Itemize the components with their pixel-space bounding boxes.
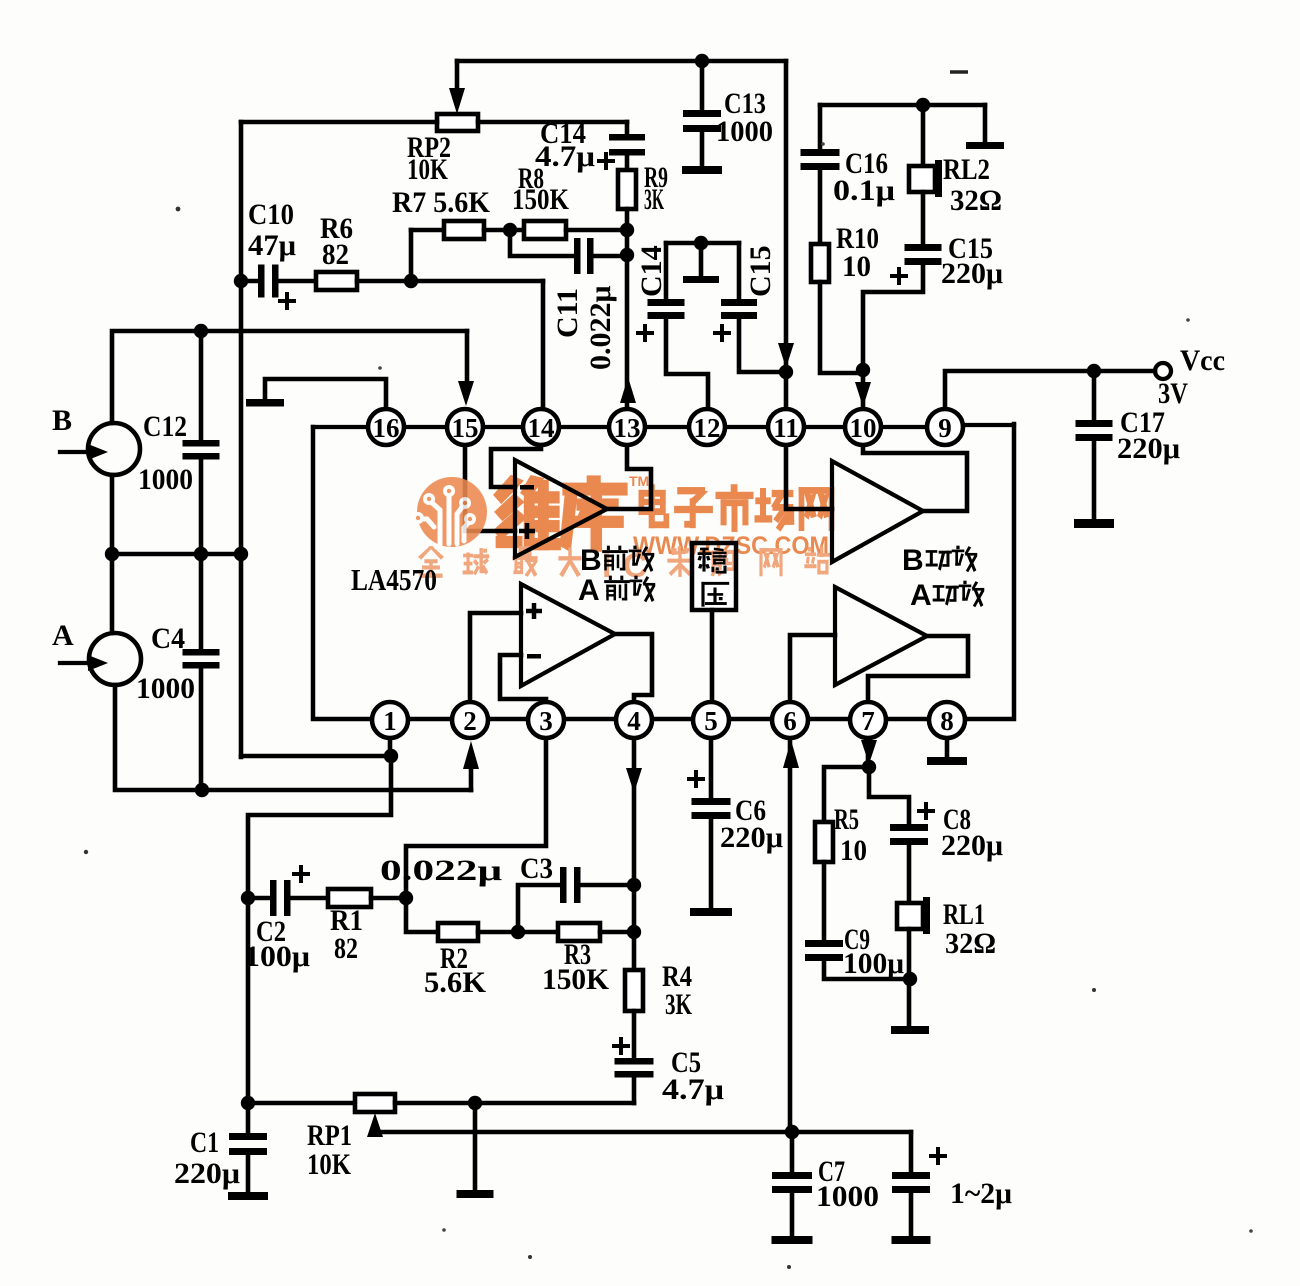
svg-text:WWW.DZSC.COM: WWW.DZSC.COM [633, 532, 829, 560]
svg-text:TM: TM [629, 473, 649, 489]
svg-text:Vcc: Vcc [1180, 344, 1225, 377]
svg-text:B: B [52, 404, 72, 437]
svg-text:RL2: RL2 [943, 153, 990, 186]
svg-text:10: 10 [842, 250, 871, 283]
svg-text:100μ: 100μ [843, 947, 904, 980]
svg-text:150K: 150K [542, 963, 610, 996]
svg-text:C11: C11 [551, 288, 584, 338]
svg-text:0.1μ: 0.1μ [833, 174, 895, 207]
svg-text:C15: C15 [744, 245, 777, 297]
svg-text:C12: C12 [143, 410, 187, 443]
svg-text:C: C [623, 547, 648, 585]
svg-text:4.7μ: 4.7μ [662, 1073, 724, 1106]
svg-text:16: 16 [373, 413, 400, 443]
svg-text:3: 3 [539, 706, 553, 736]
svg-text:3K: 3K [644, 183, 664, 216]
svg-text:0.022μ: 0.022μ [380, 854, 502, 887]
svg-text:1000: 1000 [136, 672, 195, 705]
svg-text:14: 14 [528, 413, 555, 443]
svg-text:1000: 1000 [716, 115, 773, 148]
svg-text:5.6K: 5.6K [424, 966, 487, 999]
svg-text:C10: C10 [248, 198, 294, 231]
svg-text:5: 5 [704, 706, 718, 736]
svg-text:13: 13 [614, 413, 641, 443]
svg-text:A: A [910, 579, 932, 612]
svg-text:0.022μ: 0.022μ [584, 285, 617, 370]
svg-text:R5: R5 [834, 803, 859, 836]
svg-text:1~2μ: 1~2μ [950, 1177, 1012, 1210]
svg-text:10K: 10K [307, 1148, 352, 1181]
svg-text:47μ: 47μ [248, 229, 296, 262]
svg-text:220μ: 220μ [941, 257, 1003, 290]
svg-text:12: 12 [694, 413, 721, 443]
svg-text:B: B [902, 544, 924, 577]
svg-text:82: 82 [322, 238, 349, 271]
svg-text:220μ: 220μ [720, 821, 783, 854]
svg-text:C14: C14 [635, 245, 668, 297]
svg-text:I: I [602, 547, 611, 585]
svg-text:9: 9 [938, 413, 952, 443]
svg-text:C1: C1 [190, 1126, 219, 1159]
svg-text:100μ: 100μ [244, 940, 310, 973]
svg-text:C3: C3 [520, 852, 553, 885]
svg-text:82: 82 [334, 932, 358, 965]
svg-text:10: 10 [840, 834, 867, 867]
svg-text:220μ: 220μ [1117, 432, 1180, 465]
svg-text:1: 1 [383, 706, 397, 736]
svg-text:A: A [52, 619, 74, 652]
svg-text:3K: 3K [665, 988, 692, 1021]
svg-text:1000: 1000 [816, 1180, 879, 1213]
svg-text:8: 8 [940, 706, 954, 736]
svg-text:10K: 10K [407, 153, 449, 186]
svg-text:220μ: 220μ [941, 829, 1003, 862]
svg-text:7: 7 [861, 706, 875, 736]
svg-text:32Ω: 32Ω [945, 927, 996, 960]
svg-text:4: 4 [627, 706, 641, 736]
svg-text:A: A [578, 574, 600, 607]
svg-text:1000: 1000 [138, 463, 193, 496]
svg-text:15: 15 [452, 413, 479, 443]
svg-text:6: 6 [783, 706, 797, 736]
svg-text:10: 10 [850, 413, 877, 443]
svg-text:220μ: 220μ [174, 1157, 240, 1190]
svg-text:150K: 150K [512, 183, 570, 216]
svg-text:R7 5.6K: R7 5.6K [392, 186, 491, 219]
svg-text:C4: C4 [151, 622, 185, 655]
svg-text:11: 11 [773, 413, 799, 443]
svg-text:4.7μ: 4.7μ [535, 140, 595, 173]
svg-text:2: 2 [463, 706, 477, 736]
svg-text:32Ω: 32Ω [950, 184, 1002, 217]
